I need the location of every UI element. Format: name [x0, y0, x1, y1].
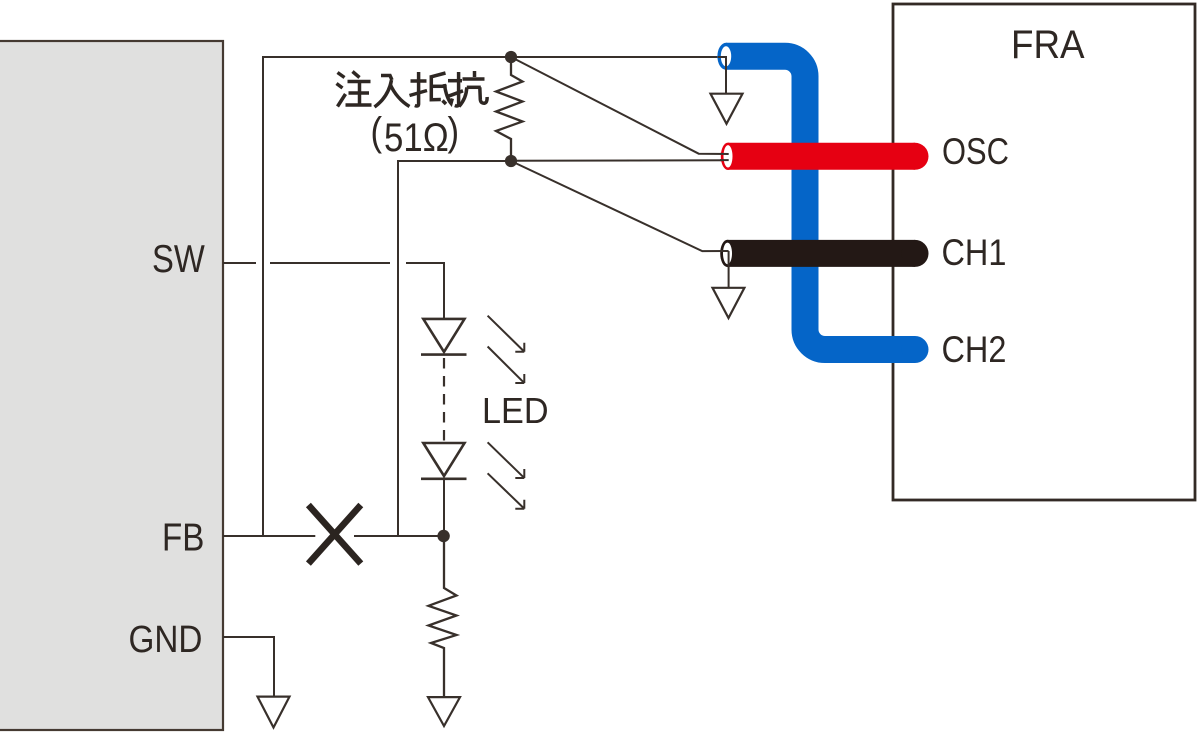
light arrows (LED D2)	[488, 442, 525, 508]
svg-text:CH2: CH2	[942, 329, 1007, 371]
light arrows (LED D1)	[488, 316, 525, 383]
wire node B to OSC tip (return)	[511, 159, 729, 162]
svg-text:GND: GND	[129, 618, 203, 661]
black probe tip ellipse	[720, 240, 735, 267]
kanji 抵	[410, 72, 453, 106]
red cable OSC	[728, 143, 915, 170]
kanji 注入抵抗 (injection resistance) hand-drawn	[337, 71, 488, 107]
LED D1	[421, 319, 467, 355]
diagonal wire node B to CH1 tip	[511, 161, 729, 251]
kanji 入	[375, 76, 410, 108]
X cut mark on FB trace	[308, 505, 360, 564]
black cable CH1	[728, 240, 916, 267]
resistor R2 (FB divider)	[429, 542, 457, 697]
ground lead (black probe)	[728, 251, 730, 288]
node A junction dot	[505, 51, 517, 63]
svg-text:FRA: FRA	[1011, 23, 1085, 68]
svg-text:OSC: OSC	[942, 131, 1009, 172]
blue cable CH2	[726, 56, 915, 349]
node FB junction dot	[437, 530, 449, 542]
svg-text:): )	[448, 109, 460, 154]
IC U1 (power IC block)	[0, 41, 223, 730]
wire through red probe tip	[720, 153, 729, 155]
wire into blue probe + ground lead	[718, 57, 726, 94]
blue probe tip ellipse	[717, 43, 734, 70]
red probe tip ellipse	[721, 143, 735, 170]
ground (black probe)	[713, 288, 745, 318]
ground (GND pin)	[258, 697, 290, 728]
wire GND pin	[223, 637, 274, 696]
ground (blue probe)	[711, 94, 743, 124]
svg-text:51Ω: 51Ω	[384, 115, 449, 160]
svg-text:FB: FB	[162, 515, 204, 559]
LED D2	[421, 443, 467, 531]
svg-text:SW: SW	[152, 236, 205, 280]
kanji 注	[337, 72, 372, 107]
svg-text:CH1: CH1	[942, 232, 1007, 274]
wire: top net from left riser to blue probe	[263, 57, 726, 536]
wire FB pin horizontal (cut at X)	[223, 535, 315, 537]
resistor R1 (injection 51Ω)	[496, 62, 523, 155]
node B junction dot	[505, 155, 517, 167]
wire through black probe tip	[720, 250, 729, 252]
kanji 抗	[448, 71, 487, 107]
wire SW pin horizontal (with jump gaps)	[223, 262, 256, 264]
dashed wire between LEDs	[443, 358, 445, 441]
svg-text:LED: LED	[482, 391, 549, 431]
wire: node B horizontal to left riser	[398, 161, 511, 536]
diagonal wire node A to OSC tip	[511, 57, 729, 154]
svg-text:(: (	[371, 109, 383, 154]
ground (R2 bottom)	[428, 697, 460, 726]
FRA box	[893, 4, 1195, 500]
